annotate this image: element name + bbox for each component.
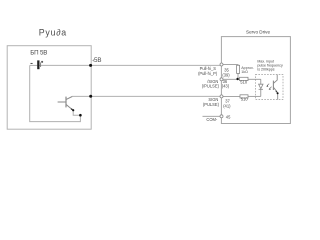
svg-text:510: 510 [240,79,248,84]
svg-text:(Pull-hi_P): (Pull-hi_P) [198,71,218,76]
svg-text:(/PULSE): (/PULSE) [202,84,220,89]
svg-text:510: 510 [241,97,249,102]
svg-text:Pyu∂a: Pyu∂a [39,27,67,37]
svg-text:(41): (41) [223,104,231,109]
svg-text:БП 5В: БП 5В [30,50,47,57]
svg-text:COM-: COM- [206,117,218,122]
svg-text:(39): (39) [222,73,230,78]
svg-text:is 200kpps: is 200kpps [257,68,274,72]
svg-text:(43): (43) [222,84,230,89]
svg-text:(PULSE): (PULSE) [203,102,220,107]
svg-text:45: 45 [226,114,231,119]
svg-text:5В: 5В [94,57,101,64]
svg-text:Servo Drive: Servo Drive [246,30,270,35]
svg-text:1kΩ: 1kΩ [241,70,248,74]
